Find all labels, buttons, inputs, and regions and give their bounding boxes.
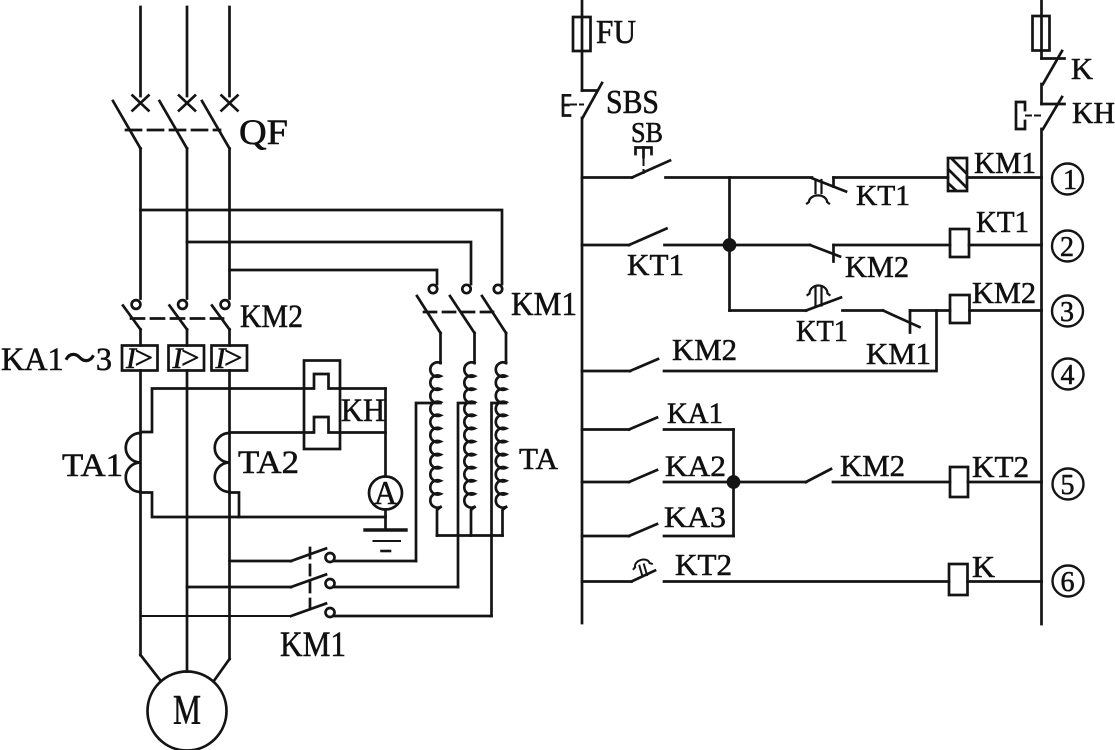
- push button SB: [632, 148, 670, 178]
- time relay coil KT1: [950, 229, 969, 257]
- svg-text:QF: QF: [239, 112, 288, 152]
- time relay coil KT2: [950, 467, 968, 497]
- svg-text:A: A: [374, 475, 397, 512]
- thermal relay contact KH NC: [1016, 97, 1065, 129]
- svg-text:KT1: KT1: [627, 247, 684, 282]
- wire TA2 secondary bottom: [230, 493, 240, 518]
- wire row 3 to coil: [910, 309, 950, 312]
- wire row 2 contact to coil: [834, 244, 951, 247]
- time relay contact KT1 delayed-closing row 3: [806, 286, 841, 311]
- wire motor lead 1: [141, 655, 161, 680]
- contact KA2: [582, 470, 734, 482]
- svg-text:KT2: KT2: [675, 547, 732, 582]
- node 3: [1052, 296, 1083, 329]
- wire left control rail: [581, 118, 584, 623]
- wire right rail: [1040, 129, 1043, 624]
- wire control rail top: [581, 0, 584, 17]
- autotransformer TA coil 2: [464, 362, 474, 535]
- overcurrent relay KA1 box I>: [122, 341, 158, 377]
- ground: [365, 530, 406, 551]
- svg-text:KM2: KM2: [240, 299, 303, 335]
- wire phase L2 incoming: [186, 7, 189, 96]
- contactor KM1 top pole 3: [482, 285, 506, 363]
- wire TA1 secondary top: [141, 389, 304, 433]
- thermal relay KH heater element: [304, 361, 340, 450]
- svg-text:FU: FU: [596, 14, 636, 51]
- wire TA tap 1: [416, 403, 441, 561]
- wire row 5 middle: [833, 481, 950, 484]
- node 4: [1053, 359, 1084, 392]
- wire row 4: [664, 311, 937, 372]
- wire phase L1 QF to KM2: [139, 149, 142, 299]
- contactor coil KM2: [950, 295, 970, 323]
- wire row 1 left: [582, 176, 632, 179]
- contactor KM1 top pole 2: [450, 285, 475, 363]
- overcurrent relay KA3 box I>: [212, 341, 248, 377]
- autotransformer TA coil 1: [430, 362, 440, 535]
- svg-text:KH: KH: [341, 393, 385, 429]
- svg-text:3: 3: [1060, 297, 1074, 328]
- wire row 6 middle: [664, 580, 949, 583]
- contactor KM1 bottom pole 3: [291, 604, 492, 618]
- svg-text:2: 2: [1060, 232, 1074, 263]
- svg-text:SBS: SBS: [606, 84, 659, 121]
- wire TA2 secondary top: [230, 431, 305, 434]
- svg-text:TA1: TA1: [62, 448, 123, 484]
- node 5: [1053, 469, 1084, 502]
- svg-text:>: >: [181, 341, 200, 377]
- wire row 3 right: [970, 309, 1042, 312]
- svg-text:KT1: KT1: [796, 313, 848, 348]
- QF linkage dashed: [126, 129, 220, 132]
- svg-text:>: >: [224, 341, 243, 377]
- wire TA star bus: [437, 534, 503, 537]
- svg-text:KT2: KT2: [972, 449, 1029, 484]
- wire motor lead 3: [215, 659, 230, 680]
- wire row B from L2: [187, 586, 291, 589]
- wire phase L1 incoming: [139, 7, 142, 96]
- svg-text:KM1: KM1: [974, 145, 1036, 180]
- wire row 2 middle: [730, 244, 811, 247]
- contact KM2 NO row 5: [806, 469, 831, 482]
- contact KM2 NC row 2: [810, 245, 840, 262]
- wire KH to ammeter branch bottom: [340, 431, 386, 434]
- svg-text:KA1～3: KA1～3: [1, 342, 112, 378]
- switch SBS: [563, 83, 602, 118]
- motor M: [148, 672, 227, 750]
- autotransformer TA coil 3: [496, 362, 506, 535]
- wire TA tap 2: [458, 403, 475, 587]
- svg-text:KM2: KM2: [845, 249, 909, 284]
- svg-text:KT1: KT1: [856, 181, 910, 212]
- svg-text:SB: SB: [631, 118, 663, 149]
- fuse FU2 right: [1033, 16, 1050, 51]
- wire L1 TA1 to motor: [139, 492, 142, 655]
- wire row 1 right: [967, 176, 1042, 179]
- wire L2 below relays to motor: [186, 371, 189, 672]
- svg-text:KM2: KM2: [672, 332, 737, 367]
- wire row C from L1: [141, 615, 292, 617]
- contact KM1 NC row 3: [883, 311, 920, 333]
- wire junction vertical rows 1-3: [728, 178, 731, 311]
- wire fuse to K contact: [1040, 51, 1043, 59]
- svg-text:K: K: [1071, 51, 1094, 86]
- wire row A from L3: [230, 560, 292, 563]
- wire FU to SBS: [581, 51, 584, 91]
- svg-text:6: 6: [1061, 567, 1075, 598]
- contactor KM2 main pole 3: [212, 300, 230, 345]
- time relay contact KT2 delayed-closing row 6: [632, 557, 656, 581]
- wire row 5 right: [968, 481, 1042, 484]
- wire branch L2 to KM1 pole 2: [187, 242, 471, 284]
- circuit breaker QF pole 2: [160, 96, 196, 149]
- wire branch L3 to KM1 pole 1: [230, 270, 438, 284]
- contactor KM1 bottom pole 2: [291, 575, 458, 589]
- svg-text:KT1: KT1: [976, 204, 1029, 239]
- svg-text:>: >: [135, 341, 154, 377]
- wire KH to ammeter branch top: [340, 387, 386, 390]
- wire row 3 middle: [843, 309, 884, 312]
- wire row 6 left: [582, 580, 632, 583]
- KM2 linkage dashed: [131, 317, 223, 320]
- wire row 6 right: [968, 580, 1042, 583]
- svg-text:KM2: KM2: [840, 448, 905, 483]
- svg-text:KA1: KA1: [667, 397, 723, 430]
- wire KA junction vertical: [732, 430, 735, 537]
- contact KM2 NO row 4: [582, 359, 658, 371]
- wire branch L1 to KM1 pole 3: [141, 210, 503, 284]
- svg-text:K: K: [972, 549, 996, 584]
- current transformer TA2: [215, 433, 230, 492]
- svg-text:KM1: KM1: [511, 286, 577, 323]
- wire phase L2 QF to KM2: [186, 149, 189, 299]
- svg-text:1: 1: [1063, 165, 1077, 196]
- circuit breaker QF pole 1: [113, 96, 149, 149]
- contactor KM2 main pole 1: [123, 300, 141, 345]
- svg-text:KM1: KM1: [866, 336, 931, 371]
- contact K NC right rail: [1042, 51, 1065, 84]
- ammeter A: [369, 475, 402, 512]
- junction dot row 5: [728, 477, 739, 488]
- wire L1 below relays: [139, 371, 142, 434]
- current transformer TA1: [126, 433, 141, 492]
- svg-text:4: 4: [1061, 360, 1075, 391]
- contactor KM1 bottom pole 1: [291, 549, 416, 563]
- wire right rail top: [1040, 0, 1043, 16]
- contact KA3: [582, 524, 734, 536]
- wire L3 TA2 to motor: [228, 492, 231, 659]
- contactor KM2 main pole 2: [170, 300, 188, 345]
- circuit breaker QF pole 3: [202, 96, 238, 149]
- time relay contact KT1 delayed-opening row 1: [807, 178, 846, 204]
- relay coil K: [949, 564, 968, 595]
- junction dot row 2: [724, 240, 735, 251]
- svg-text:M: M: [173, 688, 201, 734]
- KM1 bottom linkage dashed: [309, 548, 312, 611]
- fuse FU: [573, 17, 591, 51]
- wire K to KH: [1040, 84, 1043, 104]
- contactor coil KM1: [948, 158, 967, 191]
- wire row 5 left: [734, 481, 807, 484]
- wire row 1 coil to rail: [834, 176, 949, 179]
- overcurrent relay KA2 box I>: [169, 341, 205, 377]
- node 1: [1052, 164, 1083, 197]
- wire row 3 left: [730, 309, 807, 312]
- contactor KM1 top pole 1: [417, 285, 441, 363]
- svg-text:KM2: KM2: [972, 275, 1036, 310]
- wire phase L3 QF to KM2: [228, 149, 231, 299]
- svg-text:KM1: KM1: [280, 624, 346, 664]
- svg-text:TA: TA: [519, 441, 559, 476]
- node 6: [1053, 566, 1084, 599]
- wire L3 below relays: [228, 371, 231, 434]
- wire TA tap 3: [492, 403, 507, 616]
- wire ammeter to ground: [384, 510, 387, 531]
- wire ammeter vertical: [384, 389, 387, 477]
- svg-text:KH: KH: [1072, 95, 1115, 130]
- svg-text:5: 5: [1061, 470, 1075, 501]
- svg-text:KA3: KA3: [664, 501, 726, 534]
- contact KA1: [582, 418, 734, 430]
- svg-text:TA2: TA2: [238, 445, 299, 481]
- svg-text:KA2: KA2: [665, 450, 726, 483]
- wire phase L3 incoming: [228, 7, 231, 96]
- wire row 1 middle: [666, 176, 813, 179]
- KM1 top linkage dashed: [424, 311, 494, 314]
- wire TA1 secondary bottom: [141, 493, 386, 518]
- node 2: [1052, 231, 1083, 264]
- wire row 2 right: [969, 244, 1042, 247]
- contact KT1 NO row 2: [582, 229, 730, 246]
